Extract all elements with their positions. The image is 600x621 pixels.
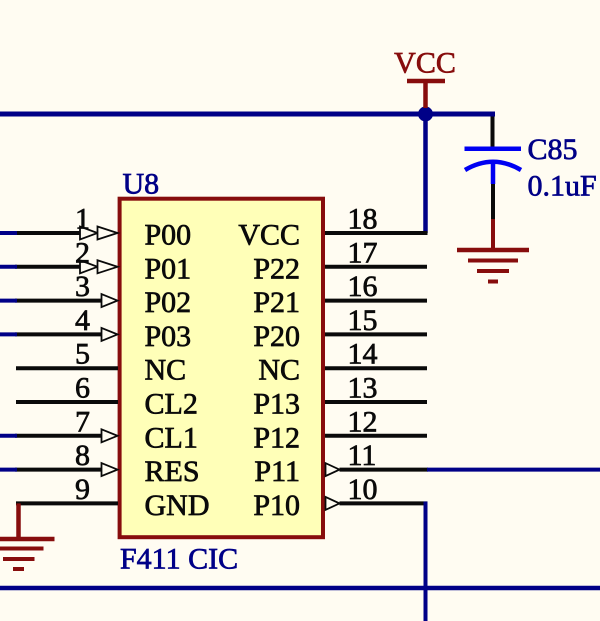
svg-text:10: 10 bbox=[348, 473, 378, 506]
wire VCC net horizontal (blue) bbox=[0, 112, 495, 117]
wire pin 15 bbox=[325, 332, 427, 336]
wire net stub pin 8 (blue) bbox=[0, 468, 17, 472]
svg-text:NC: NC bbox=[258, 354, 300, 387]
wire bottom horizontal net (blue) bbox=[0, 586, 600, 591]
wire pin 5 bbox=[16, 366, 118, 370]
svg-text:P01: P01 bbox=[145, 252, 192, 285]
wire net stub pin 3 (blue) bbox=[0, 299, 17, 303]
capacitor C85 bbox=[465, 149, 522, 184]
pin 10 output arrow bbox=[326, 497, 340, 510]
pin 3 input arrow bbox=[102, 294, 118, 307]
svg-text:P02: P02 bbox=[145, 286, 192, 319]
pin 1 double input arrow bbox=[80, 227, 98, 240]
wire pin 2 bbox=[15, 265, 80, 269]
wire pin 3 bbox=[15, 299, 102, 303]
svg-text:5: 5 bbox=[75, 338, 90, 371]
wire pin 17 bbox=[325, 265, 427, 269]
svg-text:3: 3 bbox=[75, 270, 90, 303]
wire net stub pin 4 (blue) bbox=[0, 332, 17, 336]
wire VCC net vertical drop to pin 18 (blue) bbox=[423, 114, 428, 233]
svg-text:14: 14 bbox=[348, 338, 378, 371]
svg-text:15: 15 bbox=[348, 304, 378, 337]
svg-text:RES: RES bbox=[145, 455, 200, 488]
ground below capacitor bbox=[457, 219, 529, 282]
svg-text:P13: P13 bbox=[253, 388, 300, 421]
ground at pin 9 bbox=[0, 503, 55, 569]
pin 11 output arrow bbox=[326, 463, 340, 476]
svg-text:P03: P03 bbox=[145, 320, 192, 353]
wire pin 18 bbox=[325, 231, 428, 235]
power symbol VCC bbox=[394, 47, 456, 109]
svg-text:F411 CIC: F411 CIC bbox=[120, 543, 238, 576]
svg-text:1: 1 bbox=[75, 203, 90, 236]
svg-text:11: 11 bbox=[348, 439, 377, 472]
svg-text:16: 16 bbox=[348, 270, 378, 303]
pin 7 input arrow bbox=[102, 429, 118, 442]
svg-text:GND: GND bbox=[145, 489, 210, 522]
wire net stub pin 7 (blue) bbox=[0, 434, 17, 438]
svg-text:17: 17 bbox=[348, 236, 378, 269]
svg-text:13: 13 bbox=[348, 372, 378, 405]
wire pin 14 bbox=[325, 366, 427, 370]
wire pin 11 net to right edge (blue) bbox=[427, 468, 600, 472]
wire pin 8 bbox=[15, 468, 102, 472]
svg-text:P11: P11 bbox=[254, 455, 300, 488]
svg-text:VCC: VCC bbox=[238, 219, 300, 252]
wire pin 10 net vertical drop (blue) bbox=[424, 502, 428, 621]
svg-text:P00: P00 bbox=[145, 219, 192, 252]
wire net stub pin 2 (blue) bbox=[0, 265, 17, 269]
wire capacitor top lead (black) bbox=[491, 117, 495, 148]
wire pin 6 bbox=[16, 400, 118, 404]
wire pin 1 bbox=[15, 231, 80, 235]
svg-text:NC: NC bbox=[145, 354, 187, 387]
IC U8 body bbox=[120, 199, 323, 538]
svg-text:9: 9 bbox=[75, 473, 90, 506]
svg-text:7: 7 bbox=[75, 405, 90, 438]
svg-text:P10: P10 bbox=[253, 489, 300, 522]
wire pin 16 bbox=[325, 299, 427, 303]
svg-text:CL1: CL1 bbox=[145, 421, 198, 454]
wire capacitor bottom lead (black) bbox=[491, 184, 495, 219]
svg-text:P21: P21 bbox=[253, 286, 300, 319]
wire pin 11 bbox=[340, 468, 429, 472]
svg-text:6: 6 bbox=[75, 372, 90, 405]
svg-text:P12: P12 bbox=[253, 421, 300, 454]
svg-text:18: 18 bbox=[348, 203, 378, 236]
svg-text:2: 2 bbox=[75, 236, 90, 269]
svg-text:VCC: VCC bbox=[394, 47, 456, 80]
wire pin 13 bbox=[325, 400, 427, 404]
svg-text:12: 12 bbox=[348, 405, 378, 438]
svg-text:8: 8 bbox=[75, 439, 90, 472]
wire net stub pin 1 (blue) bbox=[0, 231, 17, 235]
svg-text:P20: P20 bbox=[253, 320, 300, 353]
pin 4 input arrow bbox=[102, 328, 118, 341]
wire pin 4 bbox=[15, 332, 102, 336]
wire pin 12 bbox=[325, 434, 427, 438]
wire pin 10 bbox=[340, 501, 428, 505]
svg-text:CL2: CL2 bbox=[145, 388, 198, 421]
wire pin 7 bbox=[15, 434, 102, 438]
svg-text:U8: U8 bbox=[123, 168, 160, 201]
node junction on VCC net bbox=[418, 107, 433, 122]
wire pin 9 bbox=[16, 501, 118, 505]
svg-text:0.1uF: 0.1uF bbox=[528, 170, 597, 203]
svg-text:4: 4 bbox=[75, 304, 90, 337]
pin 8 input arrow bbox=[102, 463, 118, 476]
pin 2 double input arrow bbox=[80, 260, 98, 273]
svg-text:C85: C85 bbox=[528, 133, 578, 166]
svg-text:P22: P22 bbox=[253, 252, 300, 285]
